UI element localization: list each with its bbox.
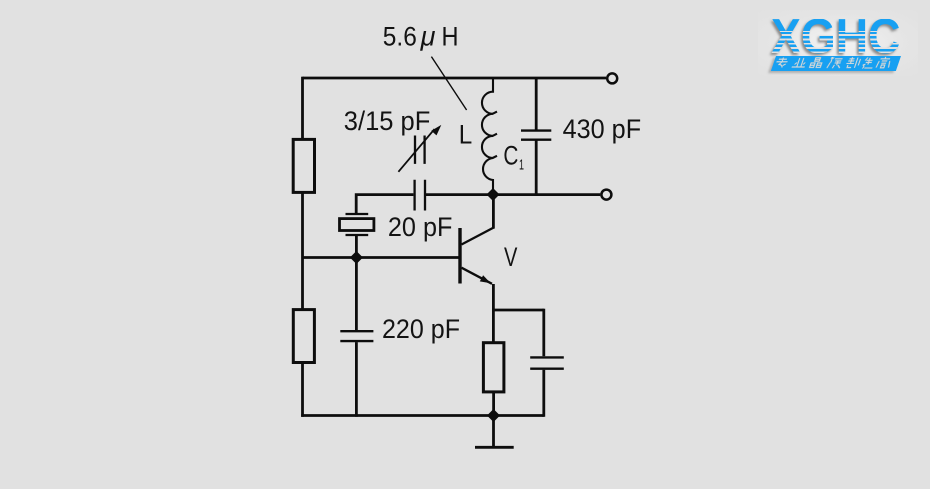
ground: [475, 446, 514, 449]
svg-text:C: C: [503, 141, 518, 171]
logo XGHC: [758, 10, 918, 76]
wire collector lead: [492, 193, 495, 229]
svg-text:20 pF: 20 pF: [388, 212, 453, 242]
inductor cusp ticks: [493, 112, 497, 158]
svg-text:220 pF: 220 pF: [382, 314, 460, 344]
svg-text:μ: μ: [420, 21, 436, 51]
resistor R1: [293, 139, 314, 192]
svg-text:3/15 pF: 3/15 pF: [344, 106, 431, 136]
crystal B1 body: [340, 219, 374, 231]
hanzi zhen: [827, 57, 844, 68]
hanzi shang: [876, 56, 892, 67]
wire R3 bottom lead: [492, 392, 495, 417]
capacitor C1 bottom lead: [535, 140, 538, 196]
capacitor bypass plates: [530, 357, 564, 368]
transistor V base bar: [458, 228, 461, 284]
inductor L coil: [482, 78, 493, 195]
trimmer capacitor 3/15pF plates: [415, 136, 425, 164]
wire 220pF bottom lead: [355, 342, 358, 417]
wire emitter branch: [492, 309, 544, 312]
wire bypass cap top lead: [542, 309, 545, 357]
wire base: [303, 256, 459, 259]
wire crystal top lead: [356, 193, 413, 213]
label pointer 5.6uH: [431, 57, 466, 110]
wire top rail: [303, 77, 607, 80]
crystal B1 top plate: [346, 213, 369, 215]
resistor R3: [483, 343, 504, 392]
wire left middle: [301, 192, 304, 309]
capacitor 20pF plates: [415, 180, 425, 211]
svg-text:5.6: 5.6: [383, 21, 417, 51]
wire bypass cap bottom lead: [542, 370, 545, 417]
node junction emitter-ground: [487, 409, 500, 422]
capacitor C1 top lead: [535, 78, 538, 130]
transistor emitter arrow head: [480, 275, 491, 283]
hanzi zao: [862, 57, 876, 68]
hanzi ye: [792, 58, 808, 67]
logo banner: [771, 56, 901, 71]
wire crystal lower lead: [355, 236, 358, 258]
capacitor 220pF plates: [340, 331, 373, 341]
svg-text:H: H: [442, 21, 459, 51]
svg-text:430 pF: 430 pF: [563, 114, 642, 144]
hanzi zhuan: [775, 57, 789, 67]
trimmer arrow head: [431, 125, 441, 135]
wire left upper: [301, 77, 304, 140]
svg-text:L: L: [459, 120, 473, 150]
capacitor C1 plates: [521, 131, 551, 140]
hanzi zhi: [845, 57, 861, 68]
transistor V emitter diagonal: [462, 268, 493, 284]
wire bottom rail: [301, 414, 544, 417]
transistor V collector diagonal: [462, 227, 495, 244]
terminal T1: [607, 73, 617, 83]
wire ground stub: [492, 416, 495, 447]
svg-text:1: 1: [519, 157, 524, 174]
trimmer arrow shaft: [398, 129, 434, 172]
wire left lower: [301, 363, 304, 417]
node junction crystal-base: [350, 251, 363, 264]
terminal T2: [601, 190, 611, 200]
svg-text:V: V: [504, 242, 517, 272]
wire emitter lead: [492, 284, 495, 344]
crystal B1 bottom plate: [346, 234, 369, 236]
wire 220pF top lead: [355, 258, 358, 331]
resistor R2: [293, 310, 314, 363]
node junction collector-tank: [487, 188, 500, 201]
wire 20pF to output node: [426, 193, 600, 196]
hanzi jing: [810, 57, 824, 67]
